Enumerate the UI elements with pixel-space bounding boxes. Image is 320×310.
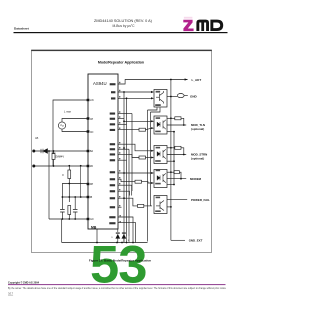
arrowheads into U4 [151,150,154,152]
junction dot (174,161.2) [173,160,175,162]
svg-text:POWER_FAIL: POWER_FAIL [191,198,210,202]
wire block1 output [167,96,177,98]
vertical bus x=150.5 [150,112,152,206]
capacitor C2 plates [73,209,78,212]
diode D2 below IC [116,229,120,243]
resistor R1 body [68,170,71,179]
junction dot (124,121.3) [123,120,125,122]
svg-text:53: 53 [90,236,146,295]
junction dots on upper bus [62,218,64,220]
svg-text:CN: CN [90,132,94,134]
LED inside U3 [157,122,160,127]
IC left pin name labels [90,100,94,221]
AC source V1 [58,122,65,129]
IC pin number marks (right of edge) [119,82,121,223]
svg-text:AS94U: AS94U [93,81,107,86]
U5 output wires [167,172,186,184]
ZMD logo letter D [210,20,223,31]
wires IC group B pins [118,144,152,160]
arrowheads into U3 [151,120,154,122]
wire GND lead after ellipse [184,95,188,97]
vertical bus x=129 [128,149,130,236]
junction dot (124,148) [123,147,125,149]
vertical bus x=147.5 [147,110,149,242]
wire L_AKT arrow line [171,79,188,81]
vertical bus x=126.5 [126,98,128,236]
junction dot (117,242.5) [116,242,118,244]
arrowhead into U2 bottom [151,97,154,99]
svg-text:(optional): (optional) [191,157,204,161]
resistor R4 pullup drop [181,118,184,125]
junction dot (124,92) [123,91,125,93]
block U2 (driver) box [154,90,167,108]
wire block1 emitter stubs [148,108,161,113]
wire U6 emitter to bus [167,206,171,208]
junction dot (62.5,197) [62,196,64,198]
phototransistor inside U4 [163,149,166,158]
schematic frame top edge (darker) [31,50,212,51]
junction dot (122,242.5) [121,242,123,244]
svg-text:BA: BA [90,150,94,153]
svg-text:ZMD44140 SOLUTION (REV. 0 A): ZMD44140 SOLUTION (REV. 0 A) [94,19,153,23]
LED inside U4 [157,152,160,157]
junction dot (170.9,147.8) [170,147,172,149]
junction dot (183.8,154.5) [183,154,185,156]
svg-text:AB: AB [35,137,39,140]
wire terminal ZD row [34,165,89,167]
svg-text:L max: L max [64,110,72,114]
wire to block2 top input [124,120,152,122]
transistor Q1 inside U2 [156,91,164,104]
svg-text:MODEM: MODEM [190,177,202,181]
IC right pin tick marks [109,83,115,224]
vertical bus x=124 [123,92,125,236]
diode D3 below IC [122,232,126,243]
junction dot (170.9,79.5) [170,79,172,81]
wire D1 pin to block1 [118,91,152,93]
junction dot (66,166) [68,165,70,167]
svg-text:DP: DP [90,184,94,186]
U4 output wires [167,148,186,161]
IC bottom stub x=97 [96,229,98,243]
junction dot (97,242.5) [96,242,98,244]
svg-text:Datasheet: Datasheet [14,27,29,31]
svg-text:MB: MB [91,225,97,229]
wire riser x=170.9 [170,80,172,241]
junction dot (124,175) [123,172,125,174]
diode D1 [41,149,48,154]
svg-text:(optional): (optional) [191,127,204,131]
junction dot (126.5,242.5) [126,242,128,244]
svg-text:GND_EXT: GND_EXT [189,239,203,243]
terminal node A [32,150,35,153]
wire XOUT to L_AKT riser [118,80,188,241]
vertical bus x=132 [131,114,133,192]
wire LIN pin to left drop [53,100,88,166]
transistor Q2 inside U6 [156,201,164,211]
GND bus y=242.5 [62,242,148,244]
arrowheads into U5 [151,172,154,174]
junction dot (172.3,206.9) [170,206,172,208]
svg-text:Copyright © ZMD AG 2004: Copyright © ZMD AG 2004 [8,281,40,284]
block U3 optocoupler box [154,116,167,134]
wire CP pin to AC source [62,119,88,122]
svg-text:Figure 27: Basic Node/Repeater: Figure 27: Basic Node/Repeater Applicati… [89,258,151,262]
svg-text:L_AKT: L_AKT [192,78,202,82]
wire terminal BA row [34,150,89,152]
footer rule [8,284,226,285]
svg-text:GN: GN [90,219,94,221]
schematic frame [32,50,212,252]
resistor R6 body [175,146,181,149]
resistor R8 (block6 input) [138,204,144,207]
junction dot (174,131.7) [173,131,175,133]
wire to block2 resistor input [118,129,139,131]
zener diode Z1 [52,151,56,166]
block U5 optocoupler box [154,170,167,188]
arrowhead L_AKT [185,78,188,80]
svg-text:R: R [62,173,64,177]
wire D0 pin to block1 [118,97,152,99]
U6 output wire POWER_FAIL [167,199,187,201]
svg-text:LIN: LIN [90,100,94,102]
junction dot (172.3,183.6) [173,184,175,186]
resistor R2 drop [68,215,70,220]
junction dot (126.5,98.3) [126,97,128,99]
block pin-name marks inside boxes [155,91,161,212]
junction dot (124,198.2) [123,197,125,199]
LED inside U5 [157,176,160,181]
wire GND bus lower left riser [61,219,63,243]
resistor R5 (block3 input) [139,156,146,159]
ZMD logo letter Z [183,17,193,31]
resistor R9 body [174,171,179,174]
junction dot (170.9,96.5) [170,96,172,98]
wires group: left side [34,100,89,243]
wire GND_EXT lead [171,239,185,241]
svg-text:CP: CP [90,119,94,121]
capacitor C2 drop [74,197,76,219]
IC left pin LIN (squares and labels) [87,99,90,220]
svg-text:Mode/Repeater Application: Mode/Repeater Application [98,61,144,65]
svg-text:M-Bus by µs°C: M-Bus by µs°C [112,24,135,28]
block U4 optocoupler box [154,146,167,164]
phototransistor inside U3 [163,120,166,129]
svg-text:3/17: 3/17 [8,292,14,296]
junction dot (170.9,118.3) [170,117,172,119]
wire IB row [62,196,88,198]
wire CN pin to AC source [62,129,88,131]
junction dot (53,166) [53,165,55,167]
IC U1 body [88,74,118,229]
wire GND bus upper [49,218,88,220]
vertical x=49 from BA wire to bus [48,151,50,219]
svg-text:GND: GND [190,94,198,98]
block U6 transistor box [154,196,167,214]
phototransistor inside U5 [163,173,166,182]
junction dot (53,151) [53,150,55,152]
junction dot (183.8,125) [183,124,185,126]
U3 output wires [167,118,186,131]
resistor R7 (block5 input upper) [135,180,142,183]
IC bottom bus joins [124,236,129,243]
svg-text:ZD: ZD [90,166,93,168]
resistor R4 body [175,117,181,120]
terminal node B [32,165,35,168]
wires IC group C pins [118,173,152,243]
resistor R2 body [68,206,71,215]
junction dot (180.6,177.4) [180,178,182,180]
ZMD logo letter M [196,20,209,31]
capacitor C1 drop [61,197,63,219]
junction dot (133,242.5) [132,242,134,244]
svg-text:By the owner. The details abov: By the owner. The details above have one… [8,287,227,290]
vertical bus B x=174 [173,132,175,185]
svg-text:ZMM4V: ZMM4V [55,155,64,159]
header rule [14,32,228,33]
arrowhead into U2 top [151,91,154,93]
resistor R1 vertical drop [68,166,70,202]
wires IC group A pins [118,114,152,130]
resistor R3 (block2 input) [139,128,146,131]
capacitor C1 plates [60,209,65,212]
wire DP row [62,184,88,198]
connector ellipse (GND) [177,94,184,98]
